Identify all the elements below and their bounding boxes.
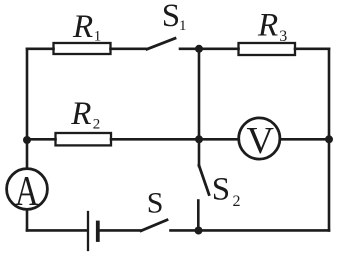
voltmeter V [239,118,280,159]
node right-middle junction [325,135,333,143]
svg-text:R: R [257,8,278,44]
wire top-left horizontal [27,47,54,50]
svg-text:3: 3 [279,28,287,45]
node top junction [195,45,203,53]
svg-text:V: V [246,120,274,162]
node bottom junction [195,227,203,235]
svg-text:1: 1 [179,18,187,34]
wire R2 to voltmeter [111,138,238,141]
node middle junction [195,135,203,143]
wire left vertical lower [26,211,29,231]
wire right vertical [328,49,331,231]
svg-text:S: S [147,186,164,219]
wire S1 contact to R3 [180,47,239,50]
resistor R1 [54,43,111,54]
switch S [141,220,167,231]
svg-text:2: 2 [93,116,101,132]
wire R1 to S1 [111,47,148,50]
svg-text:S: S [212,172,230,208]
battery long plate [87,212,89,250]
wire battery to S [100,229,141,232]
svg-text:S: S [162,0,180,34]
resistor R2 [56,133,112,145]
wire left vertical upper [26,49,29,168]
switch S2 [199,166,209,195]
wire middle vertical branch [198,49,201,166]
wire voltmeter to right [281,138,330,141]
wire middle-left horizontal [27,138,56,141]
resistor R3 [239,43,296,55]
switch S1 [147,38,175,49]
svg-text:A: A [15,168,39,215]
svg-text:R: R [70,96,91,132]
svg-text:1: 1 [94,29,102,45]
node left-middle junction [23,136,31,144]
wire R3 to top-right corner [295,47,329,50]
wire S2 bottom contact [197,201,200,231]
battery short plate [96,223,100,241]
svg-text:R: R [72,9,93,45]
wire S contact to bottom-right corner [171,229,330,232]
svg-text:2: 2 [233,193,241,210]
ammeter A [7,169,48,210]
wire bottom-left horizontal [27,229,87,232]
